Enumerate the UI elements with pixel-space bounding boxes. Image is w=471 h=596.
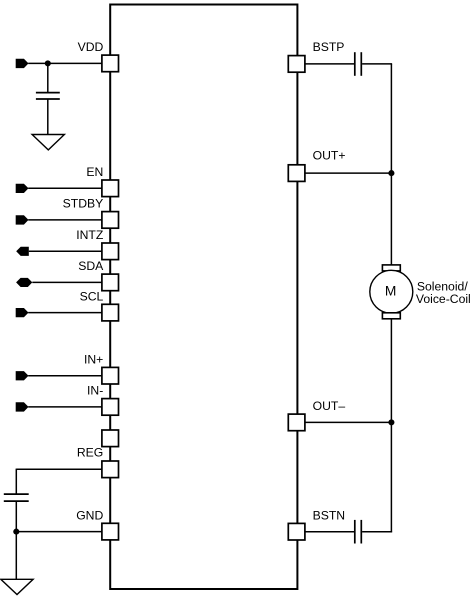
capacitor C1 — [36, 93, 60, 99]
load label Solenoid/Voice-Coil — [416, 279, 471, 306]
wire C2 to ground — [15, 501, 17, 579]
pin VDD — [102, 55, 119, 72]
wire OUT- — [305, 421, 392, 423]
svg-text:IN+: IN+ — [84, 352, 103, 366]
svg-text:REG: REG — [77, 445, 103, 459]
pin OUT- — [288, 414, 305, 431]
input terminal EN — [16, 184, 29, 193]
pin OUT+ — [288, 165, 305, 182]
wire right rail lower — [390, 318, 392, 532]
svg-text:Voice-Coil: Voice-Coil — [416, 292, 471, 306]
pin SDA — [102, 274, 119, 291]
ground (VDD bypass) — [32, 135, 64, 150]
svg-text:SDA: SDA — [78, 259, 104, 273]
pin IN+ — [102, 367, 119, 384]
wire SCL — [28, 312, 102, 314]
wire GND — [16, 531, 102, 533]
pin GND — [102, 523, 119, 540]
pin BSTN — [288, 523, 305, 540]
capacitor C3 (bootstrap P) — [355, 52, 362, 76]
wire BSTN to C4 — [305, 531, 354, 533]
input terminal STDBY — [16, 215, 29, 224]
bidirectional terminal SDA — [16, 278, 32, 287]
pin IN- — [102, 399, 119, 416]
wire IN- — [28, 406, 102, 408]
svg-text:BSTN: BSTN — [313, 509, 346, 523]
motor M1 circle — [370, 270, 413, 313]
wire REG to C2 — [15, 469, 17, 495]
wire C1 to ground — [47, 99, 49, 135]
svg-text:BSTP: BSTP — [313, 40, 345, 54]
wire OUT+ — [305, 172, 392, 174]
input terminal IN- — [16, 402, 29, 411]
junction node GND — [13, 529, 19, 535]
input terminal IN+ — [16, 371, 29, 380]
wire REG — [16, 468, 102, 470]
pin INTZ — [102, 243, 119, 260]
pin SCL — [102, 304, 119, 321]
pin STDBY — [102, 212, 119, 229]
output terminal INTZ — [16, 247, 29, 256]
junction node OUT+ — [388, 170, 394, 176]
svg-text:M: M — [385, 284, 397, 299]
capacitor C4 (bootstrap N) — [355, 520, 362, 544]
ground (bottom left) — [1, 579, 33, 594]
wire SDA — [32, 281, 102, 283]
svg-text:OUT–: OUT– — [313, 399, 346, 413]
svg-text:SCL: SCL — [80, 289, 104, 303]
wire junction to C1 — [47, 63, 49, 92]
junction node OUT- — [388, 419, 394, 425]
wire INTZ — [29, 250, 102, 252]
motor M1 brush top — [382, 265, 400, 271]
input terminal SCL — [16, 308, 29, 317]
svg-text:EN: EN — [86, 165, 103, 179]
svg-text:OUT+: OUT+ — [313, 149, 346, 163]
wire right rail upper — [390, 64, 392, 266]
svg-text:STDBY: STDBY — [63, 197, 104, 211]
junction node VDD — [45, 60, 51, 66]
wire C3 to node — [362, 63, 392, 65]
pin BSTP — [288, 56, 305, 73]
svg-text:GND: GND — [76, 508, 103, 522]
wire BSTP to C3 — [305, 63, 354, 65]
wire EN — [28, 187, 102, 189]
svg-text:INTZ: INTZ — [76, 228, 104, 242]
input terminal VDD — [16, 59, 29, 68]
pin NC (unlabeled) — [102, 430, 119, 447]
wire C4 to node — [362, 531, 392, 533]
IC body U1 — [110, 5, 297, 590]
svg-text:IN-: IN- — [87, 383, 103, 397]
wire IN+ — [28, 375, 102, 377]
svg-text:VDD: VDD — [78, 40, 104, 54]
wire STDBY — [28, 219, 102, 221]
pin REG — [102, 461, 119, 478]
motor M1 brush bottom — [382, 313, 400, 319]
capacitor C2 — [4, 494, 29, 501]
pin EN — [102, 180, 119, 197]
wire VDD — [28, 62, 102, 64]
